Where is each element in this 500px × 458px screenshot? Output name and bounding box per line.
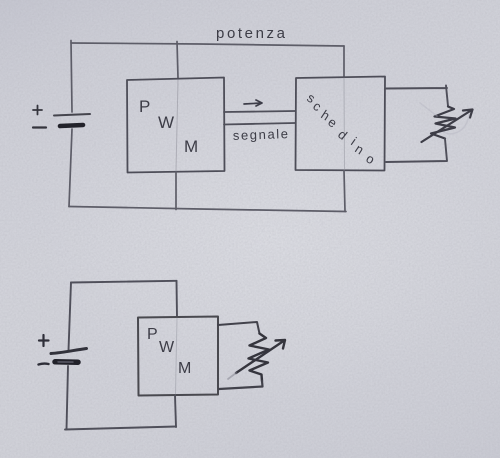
svg-text:segnale: segnale (233, 126, 290, 143)
wire top bus (71, 43, 344, 46)
box schedino U2 (296, 77, 386, 171)
wire left upper (71, 41, 72, 113)
svg-text:W: W (159, 339, 175, 356)
wire rheostat R2 top (218, 322, 260, 334)
wire PWM bottom (175, 172, 177, 210)
battery B2 (39, 335, 87, 365)
battery B1 (33, 106, 90, 128)
svg-text:P: P (139, 97, 150, 116)
label potenza (216, 25, 288, 42)
wire bottom bus (69, 207, 346, 212)
svg-text:P: P (147, 326, 158, 343)
label PWM U3 (147, 326, 191, 377)
box PWM U1 (127, 78, 225, 173)
wire left lower lower circuit (67, 366, 69, 430)
wire PWM U3 top (176, 281, 179, 317)
wire top bus lower circuit (71, 281, 177, 283)
wire rheostat R2 bottom (219, 381, 263, 389)
wire bottom bus lower circuit (65, 427, 176, 430)
wire schedino bottom (344, 171, 345, 212)
svg-text:W: W (158, 113, 174, 132)
rheostat R2 (228, 334, 285, 382)
wire schedino top (343, 46, 345, 77)
svg-text:M: M (178, 360, 191, 377)
wire left upper lower circuit (69, 283, 72, 351)
box PWM U3 (138, 317, 218, 396)
svg-text:o: o (364, 151, 378, 168)
label PWM U1 (139, 97, 198, 156)
svg-text:M: M (184, 137, 198, 156)
wire left lower (69, 129, 72, 207)
label segnale (233, 126, 290, 143)
svg-text:potenza: potenza (216, 25, 288, 42)
wire rheostat R1 bottom (386, 139, 447, 162)
arrow signal (244, 100, 262, 106)
wire PWM top (177, 42, 178, 79)
svg-text:d: d (335, 127, 350, 143)
wire PWM U3 bottom (175, 396, 176, 428)
wire signal upper (224, 111, 295, 112)
wire signal lower (224, 123, 295, 125)
rheostat R1 (420, 103, 473, 142)
label schedino U2 (304, 90, 377, 167)
svg-text:n: n (352, 141, 366, 158)
wire rheostat R1 top (386, 86, 448, 107)
